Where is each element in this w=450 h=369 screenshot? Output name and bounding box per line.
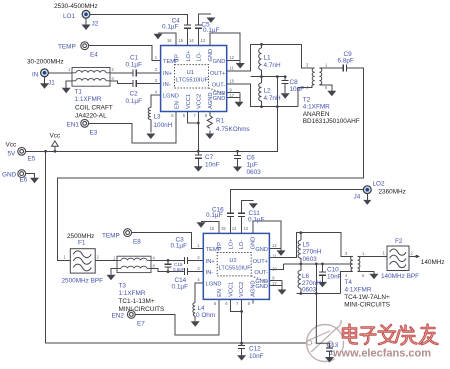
svg-text:VCC1: VCC1 <box>229 282 235 297</box>
svg-text:16: 16 <box>210 226 215 231</box>
svg-text:1: 1 <box>362 251 365 256</box>
svg-text:TEMP: TEMP <box>102 233 120 240</box>
svg-text:TEMP: TEMP <box>58 43 76 50</box>
svg-text:3: 3 <box>345 251 348 256</box>
svg-text:F1: F1 <box>78 240 86 247</box>
svg-text:2: 2 <box>197 255 200 260</box>
svg-text:www.elecfans.com: www.elecfans.com <box>332 347 431 359</box>
svg-text:T1: T1 <box>75 89 83 96</box>
svg-text:30-2000MHz: 30-2000MHz <box>27 59 64 66</box>
svg-text:10nF: 10nF <box>290 86 305 93</box>
svg-text:IN-: IN- <box>163 82 171 88</box>
svg-text:JA4220-AL: JA4220-AL <box>75 113 107 120</box>
svg-text:14: 14 <box>232 226 237 231</box>
svg-text:C12: C12 <box>249 346 261 353</box>
svg-text:VCC2: VCC2 <box>239 282 245 297</box>
svg-text:2: 2 <box>411 251 414 256</box>
svg-text:C10: C10 <box>327 267 339 274</box>
svg-text:10nF: 10nF <box>249 353 264 360</box>
svg-text:BD1631J50100AHF: BD1631J50100AHF <box>303 118 360 125</box>
svg-text:1: 1 <box>325 63 328 68</box>
svg-text:0.1µF: 0.1µF <box>171 243 188 250</box>
svg-text:J4: J4 <box>354 194 361 201</box>
svg-text:OUT-: OUT- <box>212 82 226 88</box>
svg-text:2500MHz BPF: 2500MHz BPF <box>62 278 104 285</box>
svg-text:ANAREN: ANAREN <box>303 111 330 118</box>
svg-text:6: 6 <box>183 113 186 118</box>
svg-text:4.7nH: 4.7nH <box>264 62 281 69</box>
svg-text:140MHz: 140MHz <box>421 259 445 266</box>
svg-text:TC1-1-13M+: TC1-1-13M+ <box>119 298 155 305</box>
svg-text:LO2: LO2 <box>373 181 386 188</box>
svg-text:VCC1: VCC1 <box>186 94 192 109</box>
svg-text:LO+: LO+ <box>229 238 235 250</box>
svg-text:3: 3 <box>197 266 200 271</box>
svg-text:Vcc: Vcc <box>6 142 17 149</box>
svg-text:GND: GND <box>255 284 268 290</box>
svg-text:GND: GND <box>251 237 257 250</box>
svg-text:1: 1 <box>155 55 158 60</box>
svg-text:8: 8 <box>248 301 251 306</box>
svg-text:E4: E4 <box>90 52 98 59</box>
svg-text:C1: C1 <box>130 55 139 62</box>
svg-text:3: 3 <box>155 78 158 83</box>
svg-text:15: 15 <box>221 226 226 231</box>
svg-text:TP: TP <box>174 54 180 61</box>
svg-text:L1: L1 <box>264 55 272 62</box>
svg-text:3: 3 <box>306 63 309 68</box>
svg-text:VCC2: VCC2 <box>197 94 203 109</box>
svg-text:E6: E6 <box>20 177 28 184</box>
svg-text:11: 11 <box>272 253 277 258</box>
svg-text:L2: L2 <box>264 88 272 95</box>
svg-text:6: 6 <box>225 301 228 306</box>
svg-text:E8: E8 <box>133 239 141 246</box>
svg-text:0.1µF: 0.1µF <box>203 27 220 34</box>
svg-text:L4: L4 <box>198 305 206 312</box>
svg-text:10nF: 10nF <box>327 274 342 281</box>
svg-text:GND: GND <box>213 96 226 102</box>
svg-text:4.75KOhms: 4.75KOhms <box>216 126 250 133</box>
svg-text:2: 2 <box>112 67 115 72</box>
svg-text:0.1µF: 0.1µF <box>248 217 265 224</box>
svg-text:IN+: IN+ <box>206 259 216 265</box>
svg-text:F2: F2 <box>395 238 403 245</box>
svg-text:100nH: 100nH <box>154 122 173 129</box>
svg-text:OUT+: OUT+ <box>253 259 269 265</box>
svg-text:EN1: EN1 <box>67 122 80 129</box>
svg-text:10: 10 <box>230 79 235 84</box>
svg-text:AGND: AGND <box>208 93 214 109</box>
svg-text:GND: GND <box>213 59 226 65</box>
svg-text:T2: T2 <box>303 97 311 104</box>
svg-text:16: 16 <box>167 38 172 43</box>
svg-text:IN+: IN+ <box>163 71 173 77</box>
svg-text:C8: C8 <box>290 79 299 86</box>
svg-text:J1: J1 <box>48 80 55 87</box>
svg-text:GND: GND <box>208 49 214 62</box>
svg-text:13: 13 <box>201 38 206 43</box>
svg-text:140MHz BPF: 140MHz BPF <box>381 273 419 280</box>
svg-text:270nH: 270nH <box>303 249 322 256</box>
svg-text:1: 1 <box>197 243 200 248</box>
svg-text:LO-: LO- <box>197 52 203 62</box>
svg-text:C7: C7 <box>205 154 214 161</box>
svg-text:5: 5 <box>171 113 174 118</box>
svg-text:4: 4 <box>197 277 200 282</box>
svg-text:Vcc: Vcc <box>50 133 61 140</box>
svg-text:11: 11 <box>230 66 235 71</box>
svg-text:0 Ohm: 0 Ohm <box>196 312 215 319</box>
svg-text:0.8pF: 0.8pF <box>173 267 185 272</box>
svg-text:E5: E5 <box>28 156 36 163</box>
svg-text:4: 4 <box>112 76 115 81</box>
svg-text:EN: EN <box>174 101 180 109</box>
svg-text:4:1XFMR: 4:1XFMR <box>303 104 330 111</box>
svg-text:1: 1 <box>383 251 386 256</box>
svg-text:EN2: EN2 <box>112 313 125 320</box>
svg-text:OUT+: OUT+ <box>210 71 226 77</box>
svg-text:1:1XFMR: 1:1XFMR <box>75 96 102 103</box>
svg-text:10nF: 10nF <box>205 162 220 169</box>
svg-text:L5: L5 <box>303 242 311 249</box>
svg-text:MINI-CIRCUITS: MINI-CIRCUITS <box>119 306 165 313</box>
svg-text:2530-4500MHz: 2530-4500MHz <box>54 3 98 10</box>
svg-text:OUT-: OUT- <box>254 270 268 276</box>
svg-text:15: 15 <box>178 38 183 43</box>
svg-text:6: 6 <box>325 85 328 90</box>
svg-text:14: 14 <box>189 38 194 43</box>
svg-text:EN: EN <box>217 289 223 297</box>
svg-text:7: 7 <box>193 113 196 118</box>
svg-text:C6: C6 <box>247 155 256 162</box>
svg-text:0.1µF: 0.1µF <box>126 98 143 105</box>
svg-text:0.1µF: 0.1µF <box>162 24 179 31</box>
svg-text:4: 4 <box>345 273 348 278</box>
svg-text:IN-: IN- <box>206 270 214 276</box>
svg-text:6.8pF: 6.8pF <box>338 58 354 65</box>
svg-text:4:1XFMR: 4:1XFMR <box>345 286 372 293</box>
svg-text:AGND: AGND <box>251 280 257 296</box>
svg-text:E7: E7 <box>137 321 145 328</box>
svg-text:4.7nH: 4.7nH <box>264 95 281 102</box>
svg-text:J2: J2 <box>92 21 99 28</box>
svg-text:0.1µF: 0.1µF <box>126 62 143 69</box>
svg-text:2: 2 <box>155 67 158 72</box>
svg-text:5: 5 <box>214 301 217 306</box>
svg-text:10: 10 <box>272 266 277 271</box>
svg-text:0603: 0603 <box>303 256 318 263</box>
svg-text:GND: GND <box>2 172 17 179</box>
svg-text:U2: U2 <box>229 258 236 264</box>
svg-text:LO1: LO1 <box>63 13 76 20</box>
svg-text:C2: C2 <box>130 90 139 97</box>
svg-text:TP: TP <box>217 242 223 249</box>
svg-text:LGND: LGND <box>206 281 222 287</box>
svg-text:1: 1 <box>68 67 71 72</box>
svg-text:LGND: LGND <box>163 94 179 100</box>
svg-text:2: 2 <box>97 255 100 260</box>
svg-text:1µF: 1µF <box>247 162 258 169</box>
svg-text:1: 1 <box>64 255 67 260</box>
svg-text:17: 17 <box>230 93 235 98</box>
svg-text:4: 4 <box>155 89 158 94</box>
svg-text:8: 8 <box>205 113 208 118</box>
svg-text:LO-: LO- <box>239 240 245 250</box>
svg-text:9: 9 <box>230 88 233 93</box>
svg-text:T3: T3 <box>119 283 127 290</box>
svg-text:U1: U1 <box>187 70 194 76</box>
svg-text:E3: E3 <box>90 130 98 137</box>
svg-text:2360MHz: 2360MHz <box>379 189 406 196</box>
svg-text:LO+: LO+ <box>186 50 192 62</box>
svg-text:R1: R1 <box>216 118 225 125</box>
svg-text:TC4-1W-7ALN+: TC4-1W-7ALN+ <box>344 294 390 301</box>
svg-text:13: 13 <box>243 226 248 231</box>
svg-text:5V: 5V <box>8 151 17 158</box>
svg-text:COIL CRAFT: COIL CRAFT <box>75 105 113 112</box>
svg-text:LTC5510IUF: LTC5510IUF <box>219 265 252 271</box>
svg-text:0603: 0603 <box>302 286 317 293</box>
svg-text:0.1µF: 0.1µF <box>172 284 189 291</box>
svg-text:0603: 0603 <box>247 169 262 176</box>
svg-text:LTC5510IUF: LTC5510IUF <box>176 77 209 83</box>
svg-text:IN: IN <box>32 72 39 79</box>
svg-text:GND: GND <box>255 247 268 253</box>
svg-text:MINI-CIRCUITS: MINI-CIRCUITS <box>344 301 390 308</box>
svg-text:7: 7 <box>236 301 239 306</box>
svg-text:12: 12 <box>230 55 235 60</box>
svg-text:T4: T4 <box>345 279 353 286</box>
svg-text:0.1µF: 0.1µF <box>206 212 223 219</box>
svg-text:9: 9 <box>272 275 275 280</box>
svg-text:12: 12 <box>272 243 277 248</box>
svg-text:17: 17 <box>272 281 277 286</box>
svg-text:L3: L3 <box>154 114 162 121</box>
svg-text:1:1XFMR: 1:1XFMR <box>119 290 146 297</box>
svg-text:6: 6 <box>362 273 365 278</box>
